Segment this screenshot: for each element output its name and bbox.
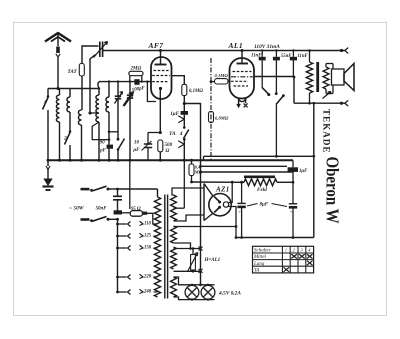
svg-text:Mittel: Mittel: [253, 255, 267, 260]
variable capacitor arrow: [124, 92, 134, 106]
svg-text:90: 90: [100, 141, 105, 146]
AF7 cathode dot: [159, 87, 162, 90]
capacitor 1uF right: [288, 167, 298, 172]
wire bottom rail: [236, 237, 314, 239]
label 110V 31mA: [254, 44, 280, 50]
node: [308, 49, 311, 104]
svg-text:6,8MΩ: 6,8MΩ: [215, 116, 229, 121]
wire tap stub: [118, 247, 127, 249]
node: [275, 155, 315, 158]
svg-text:TEKADE: TEKADE: [322, 109, 332, 154]
wire tap stub: [118, 235, 127, 237]
coil L2: [67, 97, 70, 112]
label 2MOhm: [130, 67, 142, 72]
wire: [192, 270, 194, 271]
wire: [275, 51, 277, 94]
wire AF7 anode: [172, 76, 185, 85]
wire: [108, 82, 110, 97]
wire: [129, 82, 131, 96]
node: [199, 165, 202, 168]
wire: [174, 277, 215, 285]
resistor 500: [158, 140, 163, 152]
node: [159, 49, 162, 52]
label 240: [143, 290, 152, 295]
node: [117, 148, 120, 151]
speaker: [332, 64, 355, 91]
node: [235, 236, 295, 239]
wire: [108, 219, 118, 292]
wire bottom speaker line: [294, 102, 345, 104]
AL1 heater pins: [239, 98, 246, 105]
wire: [183, 139, 185, 160]
AF7 grid2 dash: [152, 81, 168, 83]
node: [159, 131, 162, 134]
speaker plug arrow: [323, 92, 332, 99]
wire ground stem: [46, 160, 50, 179]
capacitor 1uF coupling: [181, 111, 188, 115]
antenna coupling blob: [56, 47, 60, 54]
svg-text:95 Ω: 95 Ω: [131, 207, 141, 212]
wire rail A: [204, 155, 314, 157]
AF7 top cap bar: [155, 64, 167, 66]
node: [191, 283, 209, 300]
svg-text:Oberon W: Oberon W: [323, 157, 343, 224]
tap fork: [140, 245, 144, 249]
node: [88, 111, 91, 114]
wire HV to anode B: [174, 215, 205, 221]
label 150: [144, 246, 152, 251]
wire AL1 top stub: [241, 51, 243, 64]
wire antenna down: [57, 57, 59, 89]
resistor 6.8M: [209, 112, 214, 123]
switch blade: [276, 94, 285, 104]
coil L5: [106, 97, 109, 112]
transformer secondary HV: [171, 195, 177, 221]
wire: [59, 89, 61, 96]
trimmer cap ant plates: [100, 42, 103, 58]
resistor 0,1M grid: [215, 79, 229, 84]
capacitor 10uF: [142, 141, 153, 151]
node: [183, 126, 186, 129]
svg-text:1: 1: [44, 100, 47, 106]
wire: [47, 89, 49, 97]
node tap: [116, 223, 119, 226]
wire: [59, 122, 61, 160]
label 125: [144, 234, 152, 239]
wire: [147, 213, 157, 224]
transformer secondary lamps: [171, 277, 177, 297]
node: [293, 76, 296, 79]
wire: [326, 85, 333, 94]
node: [108, 80, 110, 82]
node: [146, 80, 148, 82]
contact: [178, 141, 184, 148]
node: [69, 130, 72, 133]
wire tap stub: [118, 291, 127, 293]
label 0,1MOhm: [189, 89, 203, 94]
table row TA: [254, 269, 260, 274]
AZ1 funnel: [204, 184, 213, 221]
node: [183, 102, 186, 105]
svg-text:AL1: AL1: [228, 41, 244, 50]
capacitor 8uF right: [289, 182, 297, 237]
tap fork: [140, 289, 144, 293]
wire heater a: [174, 226, 237, 228]
trimmer cap ant arrow: [94, 42, 108, 58]
field coil Feld: [244, 179, 277, 186]
svg-text:Lang: Lang: [253, 262, 265, 267]
resistor 95: [114, 210, 148, 216]
wire heater b: [174, 243, 191, 249]
wire TAT top: [82, 46, 99, 64]
wire: [117, 150, 119, 161]
label AL1: [228, 41, 244, 50]
svg-text:H=AL1: H=AL1: [204, 258, 221, 263]
wire: [148, 133, 160, 145]
label H=AL1: [204, 258, 221, 263]
label 500Ohm: [165, 142, 173, 154]
AL1 top bar: [237, 63, 249, 65]
choke primary: [306, 62, 312, 93]
svg-text:1μF: 1μF: [170, 111, 179, 117]
node bus junctions: [47, 159, 186, 162]
wire mains top to primary: [118, 189, 158, 197]
label 220: [143, 275, 152, 280]
contact: [128, 274, 131, 279]
contact: [128, 289, 131, 294]
antenna: [45, 33, 71, 42]
wire top horizontal join: [48, 88, 99, 90]
coil L4: [96, 95, 99, 122]
node tap: [116, 235, 119, 238]
wire: [159, 152, 161, 160]
wire shield dashdot: [210, 58, 212, 160]
switch blade wave: [118, 139, 125, 150]
AZ1 anode 1: [214, 197, 221, 204]
AL1 dash cath: [234, 85, 249, 87]
wire tap: [154, 247, 158, 249]
svg-text:125: 125: [144, 234, 152, 239]
contact: [178, 116, 184, 123]
pin marks: [237, 103, 248, 107]
wire: [293, 77, 295, 103]
label 8uF: [260, 203, 269, 208]
wire filament down: [229, 207, 237, 238]
svg-text:1: 1: [285, 248, 287, 253]
node: [199, 171, 202, 174]
node: [267, 93, 270, 96]
label 95Ohm: [131, 207, 141, 212]
wire tap: [154, 223, 158, 225]
node antenna join: [56, 87, 59, 90]
wire: [98, 122, 100, 160]
svg-text:TAT: TAT: [68, 69, 78, 75]
mains switch top: [81, 186, 110, 192]
wire: [108, 189, 118, 196]
wire: [81, 125, 83, 160]
wire: [292, 160, 294, 182]
contact: [128, 245, 131, 250]
svg-text:AZ1: AZ1: [215, 186, 230, 194]
capacitor 11nF b: [290, 57, 297, 61]
node: [189, 247, 194, 250]
node: [231, 181, 234, 184]
capacitor 50nF: [113, 196, 122, 200]
svg-text:0,1MΩ: 0,1MΩ: [215, 73, 229, 78]
switch table grid: [253, 246, 314, 273]
node: [116, 188, 119, 191]
contact: [128, 233, 131, 238]
label 90pF: [99, 141, 106, 154]
coil L1: [56, 95, 59, 122]
x mark heater top: [199, 247, 203, 251]
wire: [147, 82, 156, 102]
resistor TAT: [79, 64, 84, 77]
lamp 2: [201, 285, 215, 299]
svg-text:pF: pF: [99, 148, 106, 153]
AL1 bottom bump: [239, 98, 246, 101]
coil L3: [78, 110, 81, 125]
wire: [98, 89, 100, 96]
variable capacitor plates: [127, 95, 133, 98]
trimmer cap arrow: [115, 92, 123, 104]
switch 1 blade: [43, 98, 49, 110]
wire AF7 cathode: [159, 89, 161, 133]
node: [240, 49, 243, 52]
tap fork: [140, 233, 144, 237]
label ~50W: [69, 206, 85, 212]
resistor 0,4M: [189, 164, 194, 176]
ground: [43, 179, 54, 190]
terminal bottom: [340, 100, 348, 106]
label AF7: [148, 41, 164, 50]
node: [292, 49, 294, 51]
capacitor 8uF left: [237, 182, 245, 237]
node: [129, 80, 131, 82]
wire: [69, 145, 71, 160]
wire: [69, 112, 71, 132]
label 100pF: [131, 86, 146, 93]
label 11nF: [251, 54, 262, 59]
wire right vertical: [313, 103, 315, 237]
node: [98, 87, 100, 89]
wire rail A left corner: [203, 156, 205, 160]
wire: [117, 82, 119, 139]
wire AL1 anode line: [254, 76, 294, 78]
node: [183, 138, 186, 141]
label 10uF: [132, 141, 140, 153]
plus mark: [238, 209, 241, 214]
switch 3 blade: [262, 87, 269, 94]
capacitor 90pF: [107, 145, 113, 149]
trimmer cap plates: [115, 96, 121, 99]
antenna plug notch: [56, 54, 60, 57]
wire: [191, 160, 193, 164]
wire: [183, 115, 185, 127]
label Feld: [257, 187, 267, 193]
wire tap: [154, 235, 158, 237]
wire pot top: [174, 248, 201, 250]
svg-text:+: +: [238, 209, 241, 214]
wire: [275, 104, 277, 156]
tube AZ1: [209, 194, 231, 216]
svg-text:TA: TA: [254, 269, 260, 274]
svg-text:Schalter: Schalter: [254, 249, 271, 254]
AZ1 filament loop: [223, 202, 228, 207]
contact: [128, 221, 131, 226]
svg-text:8μF: 8μF: [260, 203, 269, 208]
node: [190, 159, 193, 184]
table row Lang: [253, 262, 265, 267]
pot H=AL1: [191, 255, 196, 271]
label 6,8MOhm: [215, 116, 229, 121]
AL1 dash grid: [231, 76, 253, 78]
AL1 dash grid2: [231, 80, 248, 82]
wire HV center tap: [174, 160, 185, 208]
core bar: [316, 62, 319, 92]
wire coil jog: [92, 122, 109, 140]
node: [235, 225, 238, 228]
svg-text:110: 110: [144, 222, 152, 227]
label 1uF right: [299, 169, 308, 174]
node tap: [116, 291, 119, 294]
svg-text:500: 500: [165, 142, 173, 148]
node: [117, 138, 120, 141]
svg-text:11nF: 11nF: [297, 54, 308, 59]
tube AF7: [151, 57, 172, 99]
wire: [129, 98, 131, 160]
svg-text:Feld: Feld: [257, 187, 267, 193]
node: [192, 270, 195, 273]
svg-text:220: 220: [143, 275, 152, 280]
terminal top: [340, 48, 348, 54]
wire tap stub: [118, 276, 127, 278]
tap fork: [140, 221, 144, 225]
wire: [90, 55, 96, 114]
wire: [69, 89, 71, 98]
label 0,1MOhm grid: [215, 73, 229, 78]
svg-text:MΩ: MΩ: [194, 169, 203, 174]
label Oberon W: [323, 157, 343, 224]
wire tap: [90, 112, 97, 114]
svg-text:50nF: 50nF: [96, 207, 108, 212]
label 50nF: [96, 207, 108, 212]
label TAT: [68, 69, 78, 75]
transformer primary: [154, 197, 160, 297]
tube AL1: [230, 58, 255, 99]
resistor 2M: [129, 71, 143, 75]
transformer secondary heater1: [171, 226, 177, 243]
node: [117, 80, 119, 82]
label 1: [44, 100, 47, 106]
svg-text:150: 150: [144, 246, 152, 251]
wire rail D: [201, 171, 293, 173]
wire ground bus: [48, 159, 293, 161]
wire switch feed: [109, 131, 118, 133]
node: [261, 49, 263, 51]
label 0,4MOhm: [194, 164, 203, 174]
wire: [130, 76, 142, 82]
AF7 grid dash: [152, 75, 170, 77]
wire feld line: [192, 181, 294, 183]
svg-text:0,1MΩ: 0,1MΩ: [189, 89, 203, 94]
node tap: [116, 276, 119, 279]
svg-text:~ 50W: ~ 50W: [69, 206, 85, 212]
switch 2 blade: [65, 133, 71, 145]
wire: [309, 51, 311, 104]
wire: [81, 76, 83, 110]
wire: [211, 80, 231, 82]
plus mark: [290, 209, 293, 214]
wire: [47, 110, 49, 160]
svg-text:4: 4: [179, 131, 183, 137]
AF7 screen dash: [154, 70, 169, 72]
wire grid cap stub: [160, 51, 162, 65]
wire B+ feed: [184, 104, 200, 285]
wire tap: [154, 276, 158, 278]
wire: [108, 149, 110, 160]
label leaders: [247, 204, 287, 207]
label 11nF b: [297, 54, 308, 59]
svg-text:μF: μF: [132, 148, 140, 153]
svg-text:Ω: Ω: [166, 148, 170, 154]
wire tap: [154, 291, 158, 293]
wire antenna stem: [57, 34, 59, 46]
wire rail right of trimmer: [103, 50, 345, 52]
svg-text:240: 240: [143, 290, 152, 295]
lamp 1: [185, 285, 199, 299]
node: [313, 102, 316, 105]
label 2: [63, 135, 67, 141]
node: [108, 131, 111, 141]
table row Mittel: [253, 255, 267, 260]
node tap: [116, 247, 119, 250]
wire: [147, 148, 149, 161]
wire: [192, 249, 194, 255]
wire: [174, 297, 215, 300]
wire: [191, 176, 193, 182]
wire rail C: [201, 165, 288, 167]
wire: [326, 64, 333, 70]
label 55nF: [281, 54, 292, 59]
pot arrow: [188, 253, 198, 272]
wire grid line: [98, 82, 151, 89]
capacitor 100pF: [134, 79, 139, 85]
label TEKADE: [322, 109, 332, 154]
svg-text:110V 31mA: 110V 31mA: [254, 44, 280, 50]
wire HV to anode A: [172, 188, 204, 195]
label 110: [144, 222, 152, 227]
resistor 0.1M anode: [182, 84, 187, 95]
table X TA: [284, 267, 290, 272]
table header: [254, 248, 311, 254]
svg-text:TA: TA: [169, 131, 176, 137]
label TA 4: [169, 131, 183, 137]
label 1uF: [170, 111, 179, 117]
transformer secondary: [323, 67, 329, 89]
capacitor 55nF: [273, 57, 280, 61]
wire pot bottom: [174, 270, 201, 272]
node: [275, 49, 278, 95]
table X Mittel: [291, 254, 312, 258]
label AZ1: [215, 186, 230, 194]
core feld: [244, 176, 275, 179]
wire dropper feed: [129, 160, 131, 209]
node: [129, 80, 143, 82]
node: [240, 181, 294, 184]
core bars: [165, 195, 168, 299]
node: [210, 80, 213, 83]
